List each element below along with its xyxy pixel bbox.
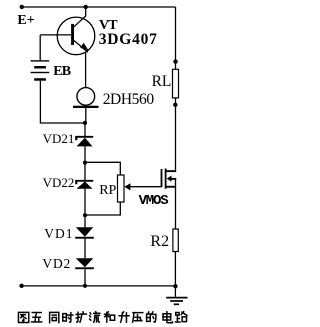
- transistor U1 VT circle: [57, 17, 95, 55]
- diode VD1 triangle: [76, 227, 93, 236]
- potentiometer RP box: [118, 175, 125, 202]
- diode 2DH560 circle: [77, 88, 95, 106]
- wire base wire: [40, 34, 71, 36]
- transistor VMOS drain stub: [167, 170, 177, 172]
- node junction dot bottom rail / diode chain: [83, 284, 87, 288]
- transistor VT base bar: [71, 24, 74, 45]
- caption char \u7535: [163, 312, 172, 323]
- node junction dot battery/2DH560/VD21: [83, 121, 87, 125]
- wire emitter to 2DH560: [85, 52, 87, 89]
- caption char \u538b: [133, 313, 143, 322]
- caption 图五 同时扩流和升压的电路 (hand-drawn glyphs): [0, 0, 203, 327]
- transistor Q2 VMOS gate plate: [161, 169, 163, 187]
- caption char \u8def: [176, 312, 187, 322]
- node junction dot VD22/VD1/RP bottom: [83, 213, 87, 217]
- caption char \u4e94: [32, 313, 42, 322]
- caption char \u6d41: [90, 312, 100, 322]
- diode VD22 triangle: [77, 182, 93, 189]
- label VD22: [43, 175, 75, 191]
- diode VD1 cathode bar: [75, 237, 94, 239]
- wire top rail E+: [22, 6, 176, 8]
- wire battery bottom lead: [40, 81, 85, 123]
- label RP: [99, 183, 116, 199]
- node dot below RL: [173, 103, 177, 107]
- caption char \u5347: [119, 312, 129, 322]
- battery EB plate 3 long: [31, 72, 50, 73]
- node dot above RL: [173, 59, 177, 63]
- resistor R2: [173, 229, 178, 252]
- ground: [166, 286, 187, 304]
- transistor Q1 VT collector wire: [74, 7, 86, 27]
- transistor VMOS channel plate: [165, 169, 167, 189]
- battery EB plate 2 short: [34, 66, 46, 69]
- label 3DG407: [99, 31, 158, 49]
- wire RP wiper to gate: [130, 186, 161, 188]
- potentiometer RP wiper arrow: [124, 183, 130, 190]
- wire VD1 to VD2: [84, 239, 86, 259]
- wire VMOS source down to R2: [175, 179, 177, 230]
- caption char \u65f6: [63, 313, 73, 323]
- node collector junction dot: [84, 5, 88, 9]
- node E- terminal dot: [19, 284, 23, 288]
- wire 2DH560 to junction: [85, 108, 87, 123]
- diode VD2 triangle: [76, 258, 93, 267]
- wire RP bottom branch: [85, 202, 120, 215]
- wire node to VD22: [84, 163, 86, 180]
- wire VD21 to node: [84, 146, 86, 162]
- transistor VMOS body stub: [171, 178, 176, 180]
- transistor VMOS source stub: [167, 186, 177, 188]
- caption char \u56fe: [18, 312, 28, 322]
- label VT: [99, 18, 117, 34]
- diode VD21 triangle: [77, 138, 93, 147]
- diode VD22 zener cathode bar: [75, 180, 93, 184]
- label RL: [152, 73, 172, 91]
- transistor VT emitter with arrow: [74, 41, 88, 53]
- transistor VMOS body arrow: [167, 176, 172, 182]
- label R2: [150, 233, 169, 251]
- node E+ terminal dot: [20, 5, 24, 9]
- caption char \u6269: [76, 312, 86, 322]
- node junction dot VD21/VD22/RP: [83, 161, 87, 165]
- wire VD2 to bottom rail: [84, 269, 86, 286]
- diode VD21 zener cathode bar: [75, 136, 93, 140]
- caption char \u7684: [147, 312, 156, 322]
- wire RP top branch: [85, 162, 120, 175]
- wire right vertical upper (rail to RL): [175, 7, 177, 69]
- wire R2 to ground junction: [174, 252, 176, 287]
- caption char \u548c: [105, 312, 115, 322]
- wire RL to VMOS drain: [175, 98, 177, 172]
- label EB: [53, 64, 70, 80]
- wire node to VD1: [84, 215, 86, 227]
- label VD21: [43, 131, 75, 147]
- label 2DH560: [103, 91, 154, 109]
- battery EB plate 1 long: [31, 60, 50, 61]
- label VD2: [42, 256, 71, 272]
- diode 2DH560 bar: [73, 106, 99, 108]
- node junction dot bottom rail / R2 / ground: [173, 284, 177, 288]
- wire battery top lead: [39, 35, 41, 60]
- label VD1: [44, 226, 73, 242]
- label VMOS: [139, 193, 168, 209]
- battery EB plate 4 short: [34, 78, 46, 81]
- wire junction to VD21: [84, 123, 86, 136]
- wire VD22 to node: [84, 189, 86, 216]
- caption char \u540c: [50, 312, 59, 322]
- diode VD2 cathode bar: [75, 267, 94, 269]
- wire bottom rail: [22, 285, 176, 287]
- resistor RL: [173, 69, 179, 98]
- label E+: [17, 13, 34, 29]
